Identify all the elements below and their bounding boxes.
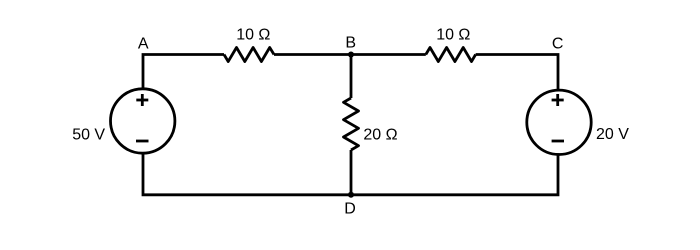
wire node B to R2: [351, 53, 426, 56]
wire R1 to node B (top middle segment): [274, 53, 351, 56]
svg-text:10 Ω: 10 Ω: [436, 27, 470, 44]
plus sign of V1: [136, 94, 148, 106]
voltage source V2 20V (circle): [527, 90, 591, 154]
bottom wire rail: V1 lead, node D rail, V2 lead: [143, 152, 558, 195]
svg-text:B: B: [345, 35, 356, 52]
minus sign of V1: [136, 140, 149, 143]
svg-text:10 Ω: 10 Ω: [236, 27, 270, 44]
voltage source V1 50V (circle): [111, 89, 175, 153]
wire R2 to node C corner and down-lead to V2: [476, 55, 558, 92]
wire A corner: down-lead to V1 and top-left segment to R1: [143, 55, 224, 91]
svg-text:50 V: 50 V: [72, 127, 105, 144]
svg-text:C: C: [552, 36, 564, 53]
node B junction dot: [348, 52, 354, 58]
resistor R2 10 ohm (zigzag): [426, 48, 476, 62]
resistor R1 10 ohm (zigzag): [224, 48, 274, 62]
minus sign of V2: [552, 140, 564, 143]
svg-text:A: A: [138, 36, 149, 53]
node D junction dot: [348, 192, 354, 198]
wire node B down to R3: [350, 55, 353, 99]
svg-text:D: D: [344, 201, 356, 218]
svg-text:20 Ω: 20 Ω: [363, 127, 397, 144]
wire R3 to node D: [350, 150, 353, 195]
resistor R3 20 ohm (vertical zigzag): [344, 98, 359, 150]
svg-text:20 V: 20 V: [596, 126, 629, 143]
plus sign of V2: [552, 94, 564, 106]
